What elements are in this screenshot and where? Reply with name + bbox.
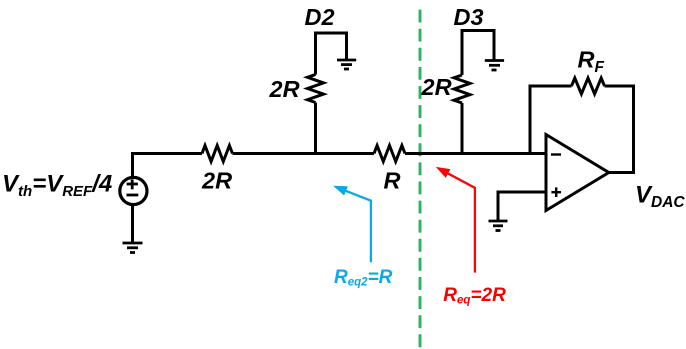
- svg-text:2R: 2R: [201, 168, 232, 194]
- svg-text:Req2=R: Req2=R: [334, 267, 393, 289]
- svg-text:D3: D3: [454, 4, 484, 30]
- svg-text:Vth=VREF/4: Vth=VREF/4: [2, 171, 112, 201]
- svg-text:RF: RF: [578, 47, 605, 77]
- svg-text:2R: 2R: [269, 76, 300, 102]
- svg-text:Req=2R: Req=2R: [443, 285, 506, 307]
- svg-text:VDAC: VDAC: [635, 182, 685, 212]
- svg-text:R: R: [384, 168, 401, 194]
- svg-text:2R: 2R: [421, 74, 452, 100]
- svg-text:D2: D2: [305, 4, 335, 30]
